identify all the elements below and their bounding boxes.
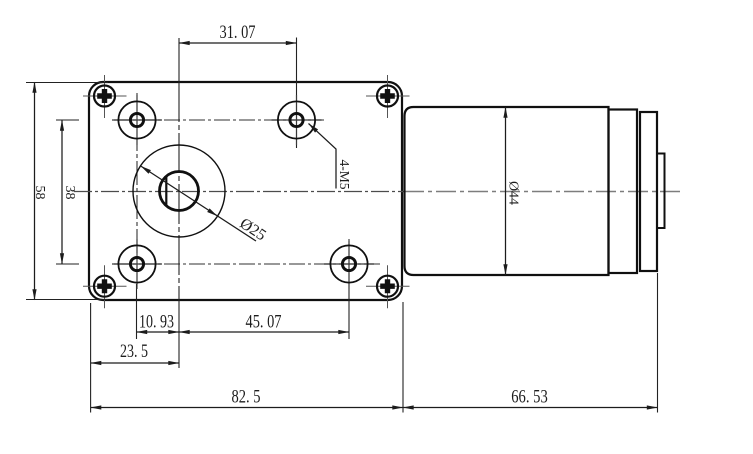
corner screw bottom-left <box>83 265 127 308</box>
shaft flat <box>165 177 167 206</box>
extension line top-right hole column x=296.5 <box>296 38 298 149</box>
leader 4-M5 <box>307 122 352 190</box>
svg-text:23. 5: 23. 5 <box>120 341 148 362</box>
mounting hole top-right <box>272 95 322 145</box>
svg-text:4-M5: 4-M5 <box>337 160 352 190</box>
centerline bottom hole row y=264 <box>114 263 381 265</box>
corner screw top-right <box>366 75 410 118</box>
svg-text:66. 53: 66. 53 <box>511 387 548 408</box>
centerline top hole row y=120 <box>114 119 324 121</box>
dimension 58 <box>26 82 108 300</box>
corner screw bottom-right <box>366 265 410 308</box>
dimension 38 <box>56 120 79 264</box>
dimension 23.5 <box>91 341 179 363</box>
mounting hole bottom-left <box>112 239 162 289</box>
mounting hole top-left <box>112 95 162 145</box>
svg-text:Ø44: Ø44 <box>506 181 521 205</box>
mounting hole bottom-right <box>324 239 374 289</box>
gearbox front plate outline <box>89 82 402 300</box>
dimension 10.93 <box>137 312 180 333</box>
centerline shaft vertical x=179 <box>178 38 180 82</box>
central boss circle <box>133 145 225 237</box>
output shaft circle <box>160 172 199 211</box>
svg-text:31. 07: 31. 07 <box>220 22 256 43</box>
extension line left hole column to lower dims <box>136 284 138 339</box>
svg-text:45. 07: 45. 07 <box>246 312 282 333</box>
motor rear protrusion <box>657 154 665 229</box>
centerline left hole column x=137 <box>136 93 138 284</box>
svg-text:82. 5: 82. 5 <box>232 387 261 408</box>
svg-text:58: 58 <box>32 186 47 200</box>
centerline horizontal main axis y=191 <box>74 191 404 193</box>
motor ring A <box>609 110 638 274</box>
dimension 45.07 <box>179 312 349 333</box>
svg-text:38: 38 <box>62 186 77 200</box>
dimension 66.53 <box>403 273 658 413</box>
motor body <box>405 107 609 275</box>
dimension 31.07 <box>179 22 297 43</box>
leader dia 25 <box>139 164 269 244</box>
dimension dia 44 <box>506 107 521 275</box>
extension line bottom-right hole column x=349 <box>348 241 350 339</box>
dimension 82.5 <box>91 303 403 413</box>
motor ring B <box>640 112 657 271</box>
svg-text:10. 93: 10. 93 <box>139 312 174 333</box>
corner screw top-left <box>83 75 127 118</box>
